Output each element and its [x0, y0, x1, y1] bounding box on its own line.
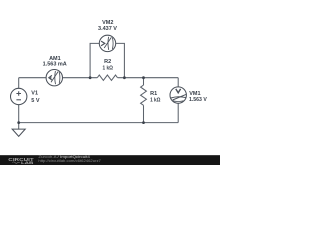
junction node: V1 / ground	[17, 121, 20, 124]
voltmeter VM2	[99, 35, 115, 51]
wire: VM1 top riser	[177, 78, 179, 87]
footer title line	[38, 155, 101, 163]
wire: V1 bottom riser	[18, 105, 20, 123]
wire: VM1 bottom riser	[177, 103, 179, 122]
svg-text:LAB: LAB	[21, 160, 34, 165]
voltage source V1	[11, 88, 27, 104]
wire: V1 top riser	[18, 78, 20, 89]
junction node: R1 top	[142, 76, 145, 79]
wire: R1 bottom lead	[143, 105, 145, 122]
voltmeter VM1	[170, 87, 186, 103]
footer bar	[0, 155, 220, 165]
wire: bottom rail	[19, 122, 179, 124]
wire: ground lead	[18, 123, 20, 130]
svg-text:http://circuitlab.com/c6t62462: http://circuitlab.com/c6t62462urz7	[38, 159, 101, 163]
svg-text:1 kΩ: 1 kΩ	[150, 98, 161, 104]
CircuitLab logo	[8, 157, 33, 165]
svg-text:R2: R2	[104, 59, 111, 65]
svg-text:R1: R1	[150, 91, 157, 97]
svg-text:V1: V1	[31, 90, 38, 96]
resistor R1 zigzag	[141, 85, 147, 105]
wire: VM2 left lead	[90, 43, 99, 77]
wire: top rail left (to AM1)	[19, 77, 46, 79]
wire: R1 top lead	[143, 78, 145, 85]
junction node: VM2 left / top rail	[89, 76, 92, 79]
wire: top rail AM1 to R2 left lead	[63, 77, 98, 79]
ammeter AM1	[46, 70, 62, 86]
svg-text:5 V: 5 V	[31, 98, 40, 104]
svg-text:3.437 V: 3.437 V	[98, 26, 117, 32]
wire: VM2 right lead	[116, 43, 125, 77]
junction node: R1 bottom	[142, 121, 145, 124]
svg-text:1.563 mA: 1.563 mA	[43, 62, 67, 68]
svg-text:1.563 V: 1.563 V	[189, 97, 207, 103]
resistor R2 zigzag	[97, 75, 117, 80]
wire: top rail R2 to right corner	[118, 77, 179, 79]
junction node: VM2 right / top rail	[123, 76, 126, 79]
svg-text:1 kΩ: 1 kΩ	[103, 66, 114, 72]
ground	[12, 129, 25, 136]
